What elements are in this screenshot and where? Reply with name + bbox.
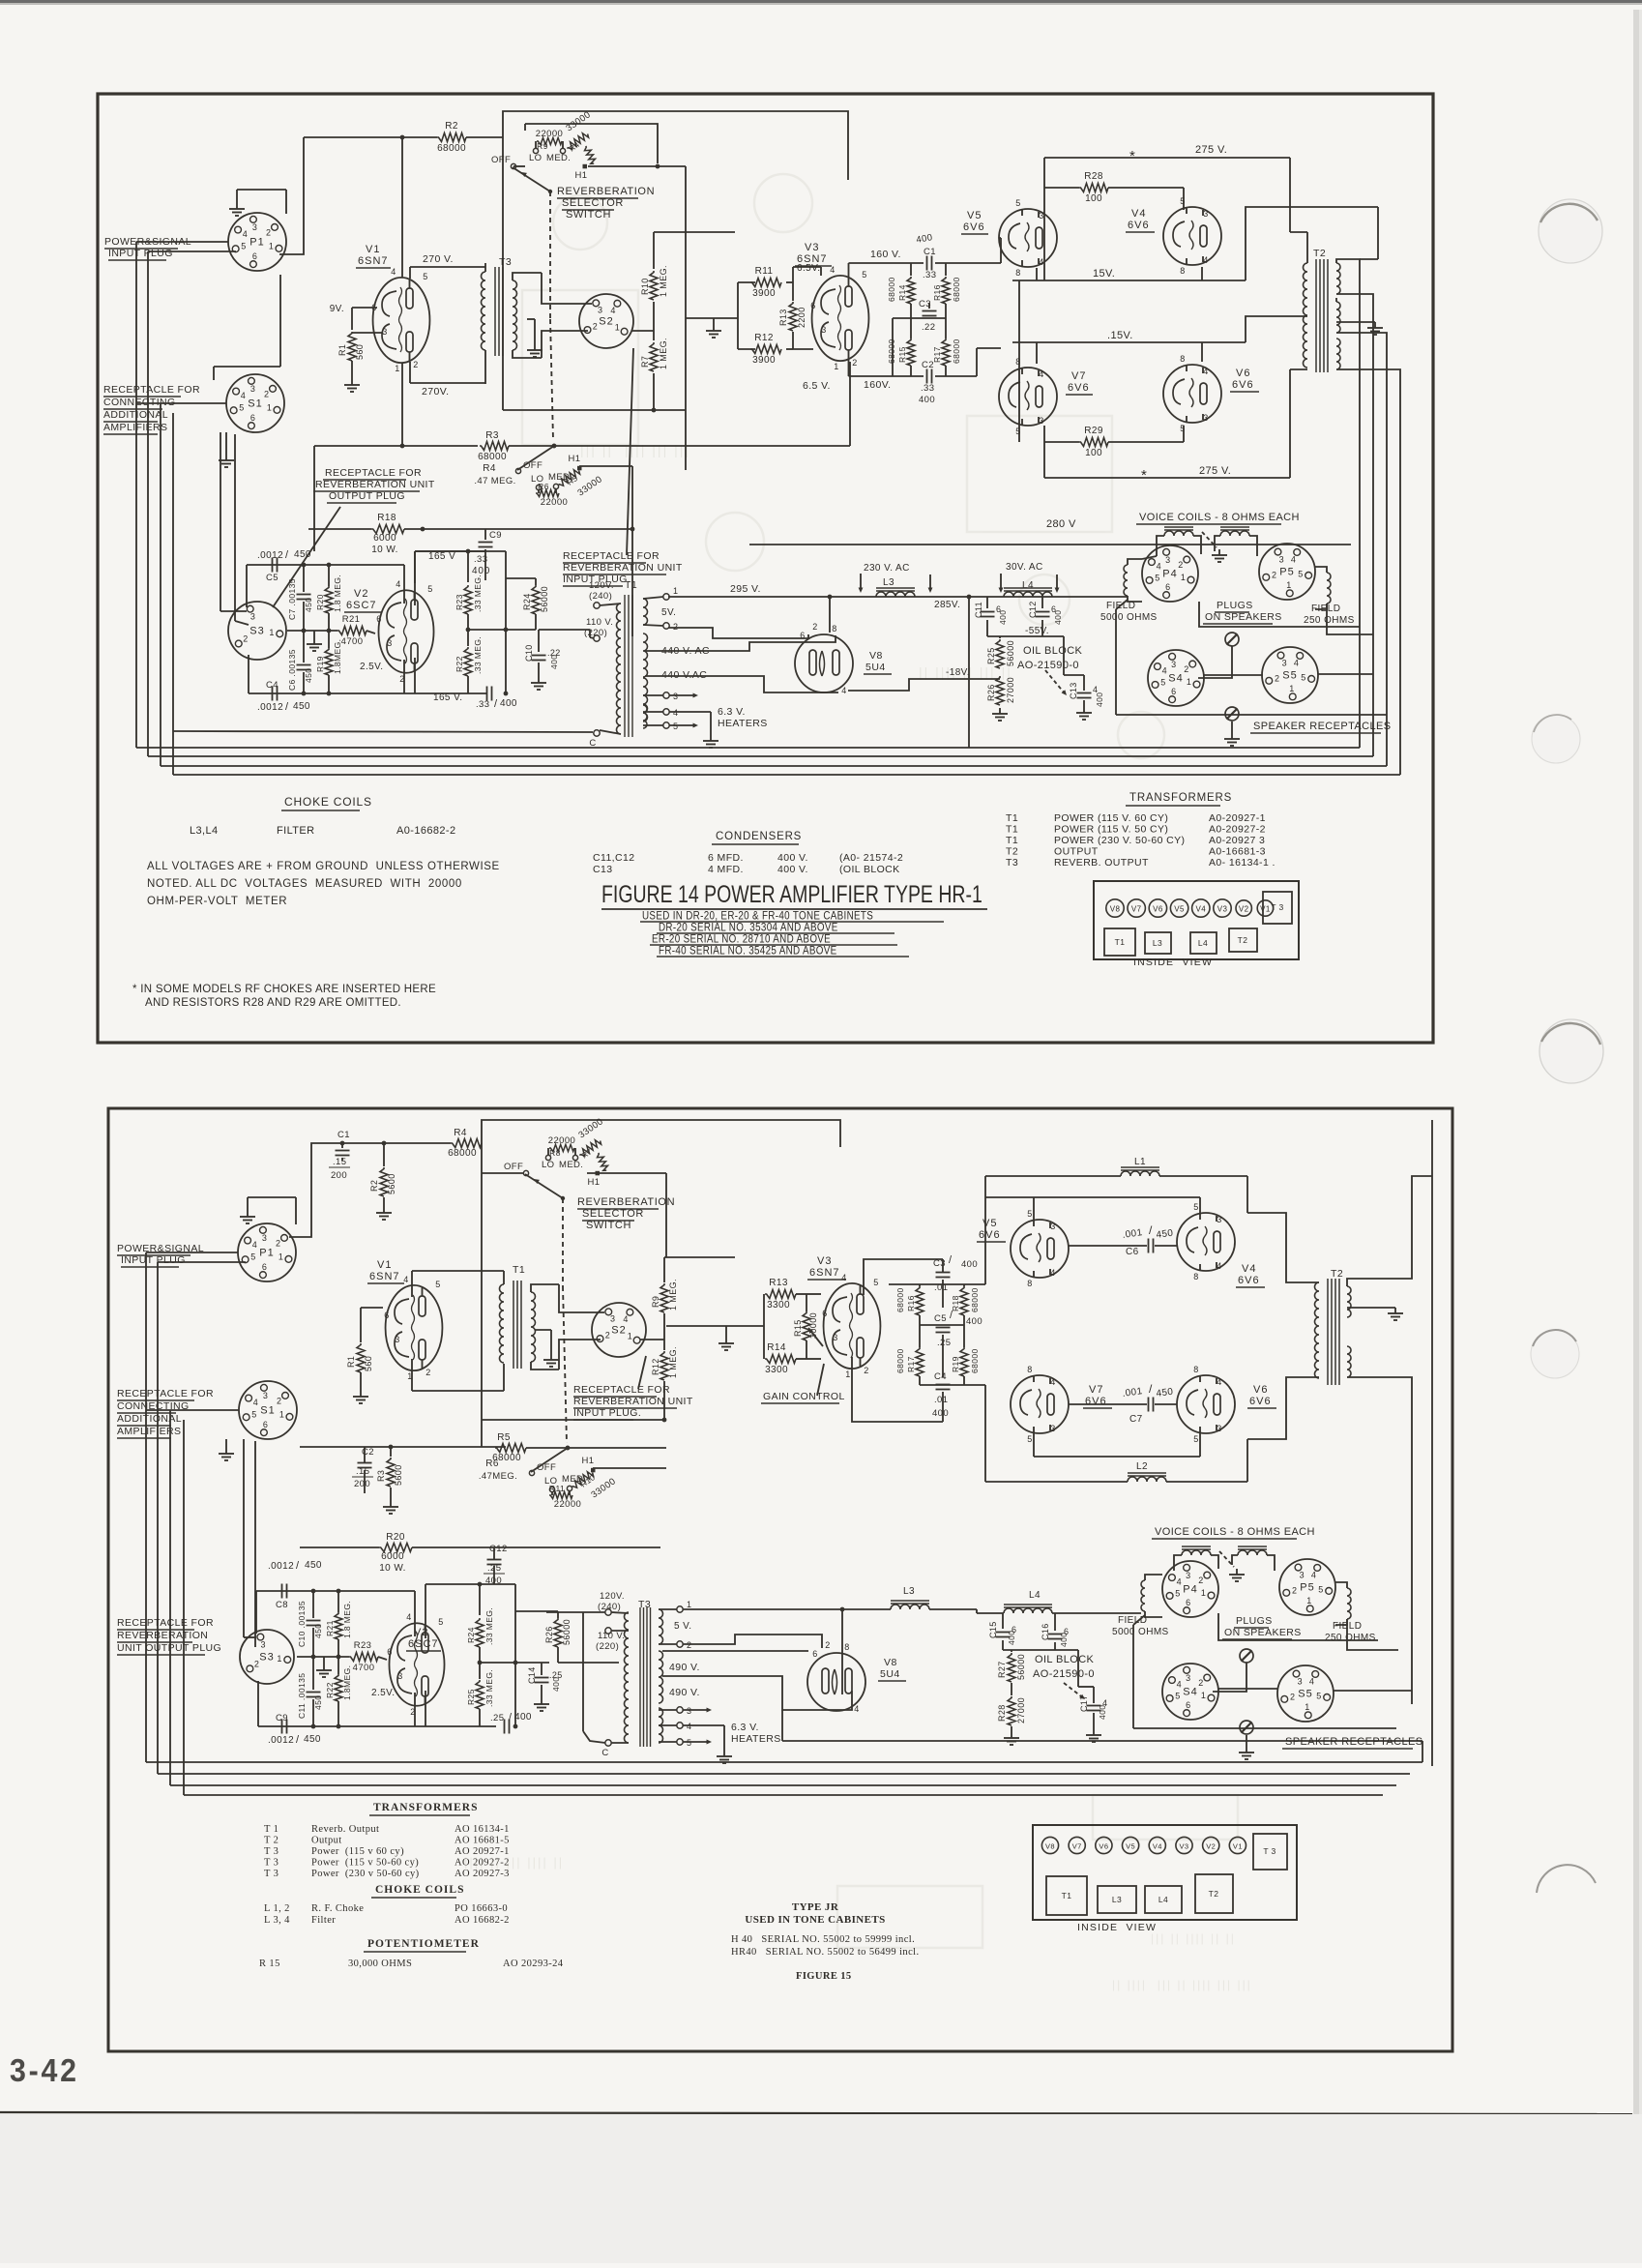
svg-text:5: 5 xyxy=(241,242,246,251)
svg-text:V6: V6 xyxy=(1099,1842,1108,1851)
svg-text:68000: 68000 xyxy=(887,277,896,302)
svg-text:C1: C1 xyxy=(337,1130,350,1140)
svg-text:450: 450 xyxy=(304,598,313,612)
svg-text:H 40 SERIAL NO. 55002 to 599: H 40 SERIAL NO. 55002 to 59999 incl. xyxy=(731,1934,915,1945)
svg-text:R19: R19 xyxy=(315,656,325,672)
svg-text:POWER (115 V. 50 CY): POWER (115 V. 50 CY) xyxy=(1054,824,1168,836)
svg-text:2: 2 xyxy=(673,622,678,632)
svg-text:CHOKE COILS: CHOKE COILS xyxy=(375,1884,464,1896)
wire V7 V6 bottom fig15 xyxy=(1033,1433,1035,1457)
svg-text:1.8 MEG.: 1.8 MEG. xyxy=(333,574,342,612)
svg-text:3: 3 xyxy=(250,612,255,622)
mid bus to R26 C14 fig15 xyxy=(480,1662,549,1664)
svg-text:(OIL BLOCK: (OIL BLOCK xyxy=(839,864,900,875)
svg-text:120V.: 120V. xyxy=(589,580,614,591)
svg-text:C9: C9 xyxy=(489,530,502,541)
svg-text:6000: 6000 xyxy=(381,1551,404,1562)
resistor R20 1.8 MEG vertical xyxy=(325,586,333,613)
svg-text:3: 3 xyxy=(1050,1222,1055,1231)
resistor R22 .33 MEG vertical xyxy=(464,647,472,676)
svg-text:5600: 5600 xyxy=(387,1173,396,1194)
svg-text:5000 OHMS: 5000 OHMS xyxy=(1112,1627,1169,1637)
svg-text:5V.: 5V. xyxy=(661,607,676,618)
svg-text:V4: V4 xyxy=(1196,905,1207,914)
svg-text:A0- 16134-1 .: A0- 16134-1 . xyxy=(1209,857,1275,869)
svg-text:C12: C12 xyxy=(489,1544,508,1554)
svg-text:400: 400 xyxy=(1007,1631,1016,1645)
svg-text:2: 2 xyxy=(593,321,598,331)
svg-text:C15: C15 xyxy=(988,1621,998,1638)
svg-text:T1: T1 xyxy=(1006,835,1018,846)
svg-text:6 MFD.: 6 MFD. xyxy=(708,852,744,864)
svg-text:200: 200 xyxy=(354,1479,370,1489)
svg-text:2: 2 xyxy=(1292,1586,1297,1596)
svg-text:C5: C5 xyxy=(266,573,279,583)
svg-text:V5: V5 xyxy=(1126,1842,1135,1851)
capacitor C17 4 400 fig15 xyxy=(1064,1683,1085,1699)
svg-text:(240): (240) xyxy=(598,1602,621,1612)
svg-text:.33: .33 xyxy=(921,383,934,394)
wire V3 cathode down xyxy=(849,362,851,446)
ground at S3 network fig15 xyxy=(323,1657,325,1664)
svg-text:1: 1 xyxy=(673,586,678,596)
field coil 5000 ohms xyxy=(1124,565,1128,596)
svg-text:160V.: 160V. xyxy=(864,379,891,391)
svg-text:4: 4 xyxy=(1217,1261,1221,1271)
svg-text:6.3 V.: 6.3 V. xyxy=(731,1722,759,1733)
svg-text:1: 1 xyxy=(395,364,399,373)
svg-text:ADDITIONAL: ADDITIONAL xyxy=(117,1413,182,1425)
svg-text:8: 8 xyxy=(1015,357,1020,367)
resistor R17 68000 vertical xyxy=(942,339,950,366)
plug S5 fig15 xyxy=(1277,1665,1334,1722)
svg-text:SWITCH: SWITCH xyxy=(566,209,611,221)
mid bus to R24 C10 xyxy=(468,629,536,631)
svg-text:OIL BLOCK: OIL BLOCK xyxy=(1023,645,1083,657)
T2 secondary wires fig15 xyxy=(1347,1176,1432,1286)
svg-text:T 3: T 3 xyxy=(1271,902,1283,912)
svg-text:560: 560 xyxy=(364,1356,373,1371)
svg-text:FIGURE 15: FIGURE 15 xyxy=(796,1971,852,1982)
svg-text:5: 5 xyxy=(1180,196,1185,206)
svg-text:S2: S2 xyxy=(611,1325,626,1337)
svg-text:1: 1 xyxy=(267,402,272,412)
svg-text:6000: 6000 xyxy=(373,533,396,544)
svg-text:8: 8 xyxy=(1193,1365,1198,1374)
svg-text:8: 8 xyxy=(1027,1279,1032,1288)
svg-text:1.8MEG.: 1.8MEG. xyxy=(342,1665,352,1700)
dashed switch arm drop xyxy=(549,191,551,319)
svg-text:6V6: 6V6 xyxy=(1128,220,1150,231)
T1 ground fig15 xyxy=(550,1354,552,1360)
svg-text:.33 MEG.: .33 MEG. xyxy=(473,636,483,674)
svg-text:OFF: OFF xyxy=(504,1162,523,1172)
wire 275V top bus xyxy=(1044,157,1290,159)
svg-text:POWER (115 V. 60 CY): POWER (115 V. 60 CY) xyxy=(1054,812,1168,824)
svg-text:*: * xyxy=(1141,467,1147,484)
T2 secondary output wires xyxy=(1336,259,1360,619)
svg-text:FILTER: FILTER xyxy=(277,825,314,837)
inside view box fig15 xyxy=(1033,1825,1297,1920)
svg-text:R14: R14 xyxy=(897,284,907,301)
heater bus wire fig15 xyxy=(781,1710,783,1741)
selector cluster fig15 upper xyxy=(523,1170,528,1175)
svg-text:R9: R9 xyxy=(537,141,548,151)
plug P4 fig15 xyxy=(1162,1561,1218,1617)
svg-text:250 OHMS: 250 OHMS xyxy=(1304,615,1355,626)
svg-text:400: 400 xyxy=(500,698,517,709)
svg-text:V7: V7 xyxy=(1089,1384,1103,1396)
wire S1 left to bus xyxy=(136,402,226,404)
svg-text:6V6: 6V6 xyxy=(1232,379,1254,391)
svg-text:295 V.: 295 V. xyxy=(730,583,761,595)
wire 295V line xyxy=(668,596,1128,598)
svg-text:3: 3 xyxy=(250,384,255,394)
plug S4 xyxy=(1148,650,1204,706)
svg-text:R18: R18 xyxy=(951,1295,960,1311)
svg-text:6V6: 6V6 xyxy=(1249,1396,1272,1407)
svg-text:4: 4 xyxy=(841,1273,846,1282)
wires T1 to S2 fig15 xyxy=(559,1284,604,1312)
reverb box fig15 xyxy=(482,1120,840,1447)
svg-text:490 V.: 490 V. xyxy=(669,1687,700,1698)
svg-text:5: 5 xyxy=(1027,1209,1032,1219)
svg-text:INSIDE VIEW: INSIDE VIEW xyxy=(1077,1922,1157,1933)
svg-text:6.3 V.: 6.3 V. xyxy=(718,706,746,718)
svg-text:6: 6 xyxy=(384,1311,389,1320)
svg-text:.0012: .0012 xyxy=(257,702,283,713)
svg-text:S4: S4 xyxy=(1168,673,1183,685)
svg-text:VOICE COILS - 8 OHMS EACH: VOICE COILS - 8 OHMS EACH xyxy=(1155,1526,1315,1538)
svg-text:V6: V6 xyxy=(1253,1384,1268,1396)
svg-text:450: 450 xyxy=(304,1734,321,1745)
svg-text:560: 560 xyxy=(355,344,365,360)
svg-text:SPEAKER RECEPTACLES: SPEAKER RECEPTACLES xyxy=(1285,1736,1423,1748)
svg-text:22000: 22000 xyxy=(548,1135,575,1146)
svg-text:AO 16682-2: AO 16682-2 xyxy=(454,1915,510,1926)
paper right edge shadow xyxy=(1633,10,1639,2114)
svg-text:400: 400 xyxy=(1095,692,1104,707)
svg-text:R24: R24 xyxy=(522,593,532,610)
svg-text:V1: V1 xyxy=(366,244,380,255)
svg-text:1: 1 xyxy=(687,1600,691,1609)
svg-text:UNIT OUTPUT PLUG: UNIT OUTPUT PLUG xyxy=(117,1642,221,1654)
svg-text:3: 3 xyxy=(1217,1215,1221,1224)
svg-text:5: 5 xyxy=(435,1280,440,1289)
svg-text:3300: 3300 xyxy=(765,1365,788,1375)
svg-text:L3: L3 xyxy=(883,577,894,588)
svg-text:5: 5 xyxy=(862,270,866,280)
svg-text:/: / xyxy=(949,1254,953,1266)
field coil 250 ohms xyxy=(1327,573,1331,604)
svg-text:.22: .22 xyxy=(922,322,935,333)
punch hole 4 xyxy=(1531,1330,1579,1378)
svg-text:CHOKE COILS: CHOKE COILS xyxy=(284,795,372,809)
svg-text:.47MEG.: .47MEG. xyxy=(479,1471,517,1482)
svg-text:8: 8 xyxy=(832,624,836,633)
svg-text:AO-21590-0: AO-21590-0 xyxy=(1017,660,1079,671)
svg-text:6: 6 xyxy=(1171,687,1176,696)
resistor R21 4700 xyxy=(337,627,367,635)
svg-text:P1: P1 xyxy=(259,1248,274,1259)
svg-text:30V. AC: 30V. AC xyxy=(1006,562,1043,573)
svg-text:R16: R16 xyxy=(906,1295,916,1311)
svg-text:.0012: .0012 xyxy=(257,550,283,561)
svg-text:R3: R3 xyxy=(376,1470,386,1482)
svg-text:4: 4 xyxy=(610,306,615,315)
plug S4 fig15 xyxy=(1162,1664,1218,1720)
svg-text:4: 4 xyxy=(1217,1377,1221,1387)
svg-text:.33: .33 xyxy=(476,699,489,710)
capacitor C11 6 400 xyxy=(986,597,988,608)
svg-text:REVERBERATION UNIT: REVERBERATION UNIT xyxy=(315,479,435,490)
svg-text:INPUT PLUG.: INPUT PLUG. xyxy=(573,1407,641,1419)
svg-text:490 V.: 490 V. xyxy=(669,1662,700,1673)
resistor R2 68000 xyxy=(304,136,437,138)
svg-text:250 OHMS: 250 OHMS xyxy=(1325,1633,1376,1643)
svg-text:56000: 56000 xyxy=(540,586,549,612)
svg-text:5000 OHMS: 5000 OHMS xyxy=(1100,612,1158,623)
svg-text:3: 3 xyxy=(387,638,392,648)
svg-text:2: 2 xyxy=(277,1396,281,1405)
plug P5 xyxy=(1259,544,1315,600)
svg-text:R25: R25 xyxy=(466,1689,476,1705)
svg-text:5: 5 xyxy=(250,1252,255,1262)
svg-text:5: 5 xyxy=(673,722,678,731)
resistor R9 1 MEG fig15 xyxy=(663,1257,665,1282)
svg-text:68000: 68000 xyxy=(437,143,466,154)
svg-text:6V6: 6V6 xyxy=(1238,1275,1260,1286)
svg-text:R19: R19 xyxy=(951,1356,960,1372)
svg-text:5: 5 xyxy=(438,1617,443,1627)
svg-text:3: 3 xyxy=(1217,1424,1221,1433)
svg-text:2: 2 xyxy=(812,622,817,632)
svg-text:68000: 68000 xyxy=(887,339,896,364)
svg-text:400: 400 xyxy=(1059,1633,1069,1647)
capacitor C11 .00135 450 fig15 xyxy=(307,1692,321,1694)
svg-text:VOICE COILS - 8 OHMS EACH: VOICE COILS - 8 OHMS EACH xyxy=(1139,512,1300,523)
svg-text:SELECTOR: SELECTOR xyxy=(562,197,624,209)
svg-text:27000: 27000 xyxy=(1006,677,1015,703)
left vertical wire bus xyxy=(135,242,137,748)
svg-text:400: 400 xyxy=(549,655,559,669)
wires reverb bottom fig15 xyxy=(662,1418,667,1423)
svg-text:PO 16663-0: PO 16663-0 xyxy=(454,1903,508,1914)
svg-text:R10: R10 xyxy=(640,278,650,295)
svg-text:1: 1 xyxy=(277,1654,281,1664)
svg-text:MED.: MED. xyxy=(559,1160,583,1170)
svg-text:100: 100 xyxy=(1085,193,1102,204)
svg-text:4: 4 xyxy=(673,708,678,718)
svg-text:1: 1 xyxy=(845,1370,850,1379)
wire .15V line xyxy=(1012,341,1246,343)
svg-text:C12: C12 xyxy=(1028,601,1038,618)
svg-text:AO 20927-1: AO 20927-1 xyxy=(454,1846,510,1857)
svg-text:1 MEG.: 1 MEG. xyxy=(668,1346,678,1378)
resistor R26 56000 fig15 xyxy=(554,1618,562,1647)
svg-text:1: 1 xyxy=(279,1252,283,1261)
wire -55V node xyxy=(987,635,1064,637)
svg-text:P5: P5 xyxy=(1300,1582,1314,1594)
punch hole 1 xyxy=(1539,199,1602,263)
V3 grid network wires fig15 xyxy=(763,1294,765,1359)
plug P4 xyxy=(1142,545,1198,602)
svg-text:HEATERS: HEATERS xyxy=(731,1733,781,1745)
T3 heater ground fig15 xyxy=(683,1724,724,1726)
svg-text:68000: 68000 xyxy=(952,277,961,302)
svg-text:P5: P5 xyxy=(1279,567,1294,578)
svg-text:1: 1 xyxy=(1305,1702,1309,1712)
V2 pin drop wires fig15 xyxy=(414,1591,416,1636)
T3 box top inside view xyxy=(1263,892,1292,924)
svg-text:REVERB. OUTPUT: REVERB. OUTPUT xyxy=(1054,857,1149,869)
svg-text:P4: P4 xyxy=(1183,1584,1197,1596)
V3 plate wires fig15 xyxy=(864,1259,943,1295)
svg-text:S5: S5 xyxy=(1282,670,1297,682)
svg-text:T1: T1 xyxy=(1006,824,1018,836)
T1 heater ground xyxy=(669,711,711,713)
svg-text:5: 5 xyxy=(1193,1202,1198,1212)
svg-text:S1: S1 xyxy=(260,1405,275,1417)
svg-text:C9: C9 xyxy=(276,1713,288,1723)
svg-text:V3: V3 xyxy=(1180,1842,1189,1851)
svg-text:450: 450 xyxy=(304,668,313,683)
svg-text:2: 2 xyxy=(254,1659,259,1668)
svg-text:L4: L4 xyxy=(1029,1590,1041,1601)
capacitor C6 .00135 450 xyxy=(297,664,311,666)
svg-text:2: 2 xyxy=(687,1640,691,1650)
svg-text:5: 5 xyxy=(1175,1691,1180,1700)
svg-text:R3: R3 xyxy=(485,430,499,441)
svg-text:5: 5 xyxy=(1027,1434,1032,1444)
svg-text:V3: V3 xyxy=(805,242,819,253)
svg-text:400: 400 xyxy=(919,395,935,405)
svg-text:R4: R4 xyxy=(454,1128,467,1138)
svg-text:C16: C16 xyxy=(1041,1623,1050,1640)
svg-text:R20: R20 xyxy=(386,1532,405,1543)
svg-text:RECEPTACLE FOR: RECEPTACLE FOR xyxy=(103,384,200,396)
svg-text:100: 100 xyxy=(1085,448,1102,458)
resistor R14 3300 fig15 xyxy=(765,1355,796,1364)
svg-text:2: 2 xyxy=(264,389,269,398)
svg-text:.47 MEG.: .47 MEG. xyxy=(474,476,515,486)
svg-text:C10: C10 xyxy=(524,644,534,662)
plug P5 fig15 xyxy=(1279,1559,1335,1615)
plug P1 xyxy=(228,213,286,271)
svg-text:L4: L4 xyxy=(1158,1895,1168,1904)
plug S2 fig15 xyxy=(592,1303,646,1357)
svg-text:C2: C2 xyxy=(362,1447,374,1458)
plug S5 xyxy=(1262,647,1318,703)
wire HI to right xyxy=(588,165,686,167)
svg-text:3: 3 xyxy=(395,1335,399,1344)
svg-text:2: 2 xyxy=(1272,571,1276,580)
punch hole 3 xyxy=(1539,1019,1603,1083)
svg-text:Power (230 v 50-60 cy): Power (230 v 50-60 cy) xyxy=(311,1869,420,1879)
svg-text:V8: V8 xyxy=(1045,1842,1055,1851)
resistor R23 4700 fig15 xyxy=(349,1653,378,1662)
svg-text:3: 3 xyxy=(397,1671,402,1681)
svg-text:.33: .33 xyxy=(923,270,936,280)
svg-text:6: 6 xyxy=(387,1647,392,1657)
svg-text:C8: C8 xyxy=(276,1600,288,1610)
svg-text:INSIDE VIEW: INSIDE VIEW xyxy=(1133,957,1213,968)
svg-text:6SN7: 6SN7 xyxy=(358,255,389,267)
svg-text:440 V.AC: 440 V.AC xyxy=(661,669,707,681)
svg-text:SELECTOR: SELECTOR xyxy=(582,1208,644,1220)
svg-text:5: 5 xyxy=(1316,1691,1321,1700)
svg-text:R26: R26 xyxy=(986,684,996,701)
resistors R16 R18 fig15 xyxy=(916,1286,924,1315)
svg-text:V8: V8 xyxy=(869,650,883,662)
bottom long bus wires xyxy=(136,747,1360,749)
svg-text:R17: R17 xyxy=(906,1356,916,1372)
capacitor C2 .33 400 xyxy=(893,375,924,377)
svg-text:R2: R2 xyxy=(445,121,458,132)
svg-text:2200: 2200 xyxy=(797,307,806,328)
speaker section wires xyxy=(1142,556,1157,559)
reverberation selector switch cluster H1 xyxy=(511,163,515,168)
svg-text:/: / xyxy=(509,1712,513,1723)
svg-text:ALL VOLTAGES ARE + FROM GROUND: ALL VOLTAGES ARE + FROM GROUND UNLESS OT… xyxy=(147,861,500,872)
svg-text:C11: C11 xyxy=(974,602,983,618)
svg-text:OFF: OFF xyxy=(523,460,542,471)
svg-text:3: 3 xyxy=(1165,555,1170,565)
V2 plate bus and C8 riser xyxy=(415,550,506,552)
resistors R17 R19 fig15 xyxy=(916,1347,924,1376)
resistor R2 5600 vertical fig15 xyxy=(383,1143,385,1166)
resistor R27 56000 fig15 xyxy=(1011,1650,1012,1652)
T2 primary wires fig15 xyxy=(1247,1213,1319,1282)
svg-text:6: 6 xyxy=(1165,582,1170,592)
svg-text:OIL BLOCK: OIL BLOCK xyxy=(1035,1654,1095,1665)
svg-text:1.8 MEG.: 1.8 MEG. xyxy=(342,1601,352,1638)
resistor R12 1 MEG fig15 xyxy=(660,1351,668,1380)
svg-text:R6: R6 xyxy=(485,1458,499,1469)
svg-text:8: 8 xyxy=(1193,1272,1198,1281)
ground T3 secondary xyxy=(534,344,536,350)
svg-text:/: / xyxy=(296,1560,300,1572)
svg-text:165 V: 165 V xyxy=(428,551,455,562)
svg-text:6SN7: 6SN7 xyxy=(809,1267,840,1279)
capacitor C9 .0012 450 fig15 xyxy=(281,1720,283,1734)
svg-text:R12: R12 xyxy=(651,1358,660,1375)
svg-text:C11 .00135: C11 .00135 xyxy=(297,1673,307,1719)
svg-text:T1: T1 xyxy=(1115,937,1126,947)
V8 supply wires fig15 xyxy=(683,1608,891,1610)
svg-text:V8: V8 xyxy=(1110,905,1121,914)
svg-text:4700: 4700 xyxy=(341,636,364,647)
speaker ground xyxy=(1231,722,1233,733)
svg-text:S3: S3 xyxy=(259,1652,274,1664)
svg-text:AO 20293-24: AO 20293-24 xyxy=(503,1959,564,1969)
svg-text:1: 1 xyxy=(1181,573,1186,582)
resistor R15 68000 vertical xyxy=(907,339,915,366)
svg-text:68000: 68000 xyxy=(895,1348,905,1373)
svg-text:H1: H1 xyxy=(588,1177,601,1188)
S3 box wires xyxy=(246,565,248,607)
svg-text:6: 6 xyxy=(250,413,255,423)
svg-text:TRANSFORMERS: TRANSFORMERS xyxy=(373,1802,478,1813)
svg-text:3: 3 xyxy=(821,325,826,335)
T1 heater arrows xyxy=(669,694,693,696)
svg-text:3: 3 xyxy=(1279,554,1284,564)
svg-text:L 1, 2: L 1, 2 xyxy=(264,1903,290,1914)
resistor R1 560 xyxy=(351,308,353,330)
svg-text:4 MFD.: 4 MFD. xyxy=(708,864,744,875)
svg-text:T2: T2 xyxy=(1238,935,1248,945)
punch hole 2 xyxy=(1532,715,1580,763)
